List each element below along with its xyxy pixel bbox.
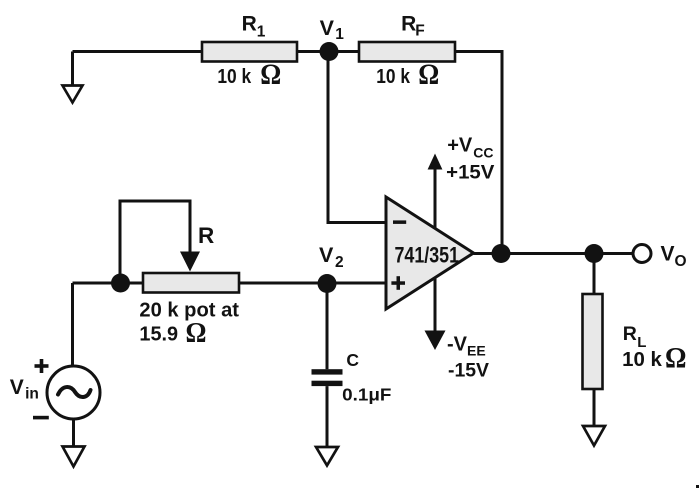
svg-text:R: R: [198, 223, 214, 248]
capacitor C plate top: [312, 369, 343, 374]
svg-text:Ω: Ω: [186, 317, 207, 349]
node V1: [320, 42, 339, 61]
svg-text:Ω: Ω: [260, 58, 281, 91]
resistor RF: [359, 42, 455, 62]
svg-text:C: C: [346, 350, 359, 370]
svg-text:R: R: [623, 323, 637, 345]
+VCC arrow head: [428, 154, 443, 170]
svg-text:O: O: [675, 253, 687, 270]
svg-text:Ω: Ω: [418, 58, 439, 91]
svg-text:V: V: [10, 376, 24, 399]
op-amp U1 741/351: [386, 197, 474, 309]
ground (under C): [316, 447, 338, 466]
wire Vin to ground: [72, 419, 75, 447]
plus sign (Vin): [35, 364, 49, 368]
wire ground stub top-left: [71, 52, 74, 86]
wire left column down to Vin: [71, 283, 74, 366]
wire RL to ground: [593, 389, 596, 426]
wire V2 down to capacitor: [326, 284, 329, 370]
node V2: [318, 274, 337, 293]
svg-text:Ω: Ω: [665, 341, 687, 374]
node RL junction: [585, 244, 604, 263]
svg-text:+V: +V: [447, 135, 473, 157]
svg-text:10 k: 10 k: [622, 349, 663, 371]
svg-text:CC: CC: [473, 145, 493, 161]
ground (under Vin): [63, 447, 85, 467]
svg-text:-15V: -15V: [448, 360, 489, 382]
minus sign (Vin): [33, 416, 49, 420]
svg-text:V: V: [320, 16, 335, 40]
-VEE arrow head: [425, 331, 446, 351]
node output junction: [492, 244, 511, 263]
wire V1 down to inverting input: [328, 52, 387, 223]
svg-text:R: R: [401, 13, 416, 36]
svg-text:V: V: [661, 242, 675, 265]
op-amp plus sign: [391, 281, 405, 285]
source Vin sine wave: [58, 387, 91, 397]
svg-text:15.9: 15.9: [139, 324, 178, 346]
wire V1 to RF: [336, 50, 359, 53]
svg-text:1: 1: [257, 24, 266, 41]
resistor R1: [202, 42, 297, 62]
terminal VO open circle: [633, 245, 651, 263]
svg-text:10 k: 10 k: [217, 66, 252, 88]
op-amp minus sign: [393, 220, 406, 224]
ground (under RL): [583, 426, 605, 446]
capacitor C plate bottom: [312, 381, 343, 386]
svg-text:-V: -V: [447, 334, 468, 356]
svg-text:in: in: [25, 386, 39, 403]
corner artifact mark: [696, 485, 699, 488]
wire op-amp output to VO: [474, 252, 634, 255]
wire top-left horizontal to R1: [73, 50, 203, 53]
svg-text:R: R: [242, 13, 257, 36]
svg-text:2: 2: [335, 254, 344, 271]
svg-text:741/351: 741/351: [395, 242, 460, 267]
wire capacitor to ground: [326, 386, 329, 447]
pot wiper loop wire: [120, 201, 190, 276]
svg-text:F: F: [415, 23, 424, 40]
svg-text:10 k: 10 k: [376, 66, 410, 88]
pot wiper arrow head: [180, 252, 200, 272]
supply rail line through op-amp: [434, 167, 437, 332]
wire RF to right corner: [455, 52, 502, 254]
svg-text:+15V: +15V: [446, 162, 494, 184]
potentiometer R body: [143, 273, 239, 293]
wire pot to V2: [239, 282, 387, 285]
wire left row to pot: [73, 282, 144, 285]
source Vin circle: [47, 366, 100, 419]
svg-text:V: V: [319, 243, 334, 267]
svg-text:EE: EE: [467, 343, 486, 359]
node junction left of pot: [111, 274, 130, 293]
wire junction down to RL: [593, 254, 596, 295]
svg-text:0.1μF: 0.1μF: [342, 385, 392, 405]
svg-text:1: 1: [335, 26, 344, 43]
resistor RL: [583, 294, 603, 389]
ground (top-left): [63, 86, 83, 103]
wire R1 to V1: [297, 50, 322, 53]
